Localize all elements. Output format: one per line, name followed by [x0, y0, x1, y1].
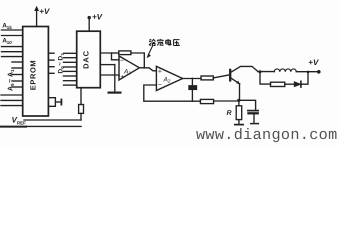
svg-text:−: −	[120, 58, 124, 65]
svg-text:+V: +V	[39, 7, 50, 16]
svg-text:~: ~	[57, 62, 64, 66]
svg-text:+V: +V	[308, 58, 319, 67]
svg-text:1: 1	[10, 69, 15, 72]
svg-text:DAC: DAC	[81, 50, 90, 69]
svg-text:15: 15	[7, 25, 13, 30]
svg-text:R: R	[227, 110, 232, 117]
svg-text:www.diangon.com: www.diangon.com	[196, 126, 338, 144]
svg-text:10: 10	[7, 40, 13, 45]
svg-text:+: +	[158, 69, 162, 76]
svg-text:+V: +V	[92, 13, 103, 22]
svg-text:−: −	[158, 82, 162, 89]
svg-text:~: ~	[7, 79, 14, 83]
svg-text:EPROM: EPROM	[29, 60, 38, 91]
svg-text:+: +	[120, 74, 124, 81]
